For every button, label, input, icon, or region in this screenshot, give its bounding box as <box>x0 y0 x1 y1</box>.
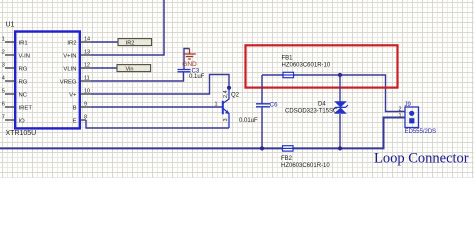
wire C6 top <box>261 75 263 104</box>
svg-text:2: 2 <box>398 107 401 113</box>
svg-text:CDSOD323-T15SC: CDSOD323-T15SC <box>285 108 338 114</box>
svg-text:12: 12 <box>84 63 90 69</box>
svg-text:9: 9 <box>84 102 87 108</box>
svg-text:11: 11 <box>84 76 90 82</box>
svg-text:13: 13 <box>84 50 90 56</box>
svg-text:1: 1 <box>215 102 218 108</box>
wire D4 top <box>339 75 341 102</box>
svg-text:2,4: 2,4 <box>223 90 229 98</box>
capacitor C3 plates <box>178 70 191 72</box>
U1 pin 7 stub <box>5 119 15 121</box>
svg-text:0.01uF: 0.01uF <box>239 118 258 124</box>
svg-text:E: E <box>73 118 77 124</box>
svg-text:2: 2 <box>2 50 5 56</box>
wire pin9 to Q2 base <box>91 106 223 108</box>
svg-text:GND: GND <box>182 61 197 68</box>
junction FB1/D4 <box>338 73 342 77</box>
ferrite bead FB1 <box>282 72 296 77</box>
U1 pin 11 stub <box>80 80 91 82</box>
U1 pin 2 stub <box>5 54 15 56</box>
svg-text:VREG: VREG <box>60 79 77 85</box>
svg-text:HZ0603C601R-10: HZ0603C601R-10 <box>281 163 330 169</box>
svg-text:IR2: IR2 <box>126 40 135 46</box>
svg-text:XTR105U: XTR105U <box>6 130 37 137</box>
wire pin10 V+ to Q2 collector <box>91 75 229 95</box>
svg-text:NC: NC <box>19 92 28 98</box>
svg-text:V+: V+ <box>69 92 77 98</box>
diode D4 TVS <box>333 101 348 114</box>
U1 pin 12 stub <box>80 67 91 69</box>
U1 pin 8 stub <box>80 119 86 121</box>
svg-text:IR1: IR1 <box>19 40 28 46</box>
svg-text:IR2: IR2 <box>67 40 76 46</box>
svg-text:D4: D4 <box>318 102 326 108</box>
U1 pin 13 stub <box>80 54 91 56</box>
svg-text:1: 1 <box>398 113 401 119</box>
U1 pin 14 stub <box>80 41 91 43</box>
svg-text:RG: RG <box>19 79 28 85</box>
U1 pin 6 stub <box>5 106 15 108</box>
svg-text:FB1: FB1 <box>282 56 294 62</box>
op-amp U1 XTR105U body <box>15 32 80 129</box>
port Vin <box>117 65 151 72</box>
junction at Q2 collector <box>227 86 231 90</box>
red highlight rectangle <box>246 45 398 87</box>
wire pin12 to Vin port <box>91 67 117 69</box>
svg-text:6: 6 <box>2 102 5 108</box>
port IR2 <box>118 39 152 46</box>
transistor Q2 <box>223 88 230 128</box>
svg-text:3: 3 <box>223 118 229 121</box>
svg-text:Q2: Q2 <box>231 93 240 99</box>
svg-text:Vin: Vin <box>126 66 134 72</box>
svg-text:3: 3 <box>2 63 5 69</box>
capacitor C6 plates <box>256 104 270 107</box>
wire pin8 E to Q2 emitter <box>86 120 229 128</box>
svg-text:VLIN: VLIN <box>63 66 76 72</box>
sheet background <box>0 0 474 178</box>
J9 pin 2 mark <box>409 111 414 116</box>
wire bottom loop bus <box>0 118 405 149</box>
U1 pin 10 stub <box>80 93 91 95</box>
svg-text:5: 5 <box>2 89 5 95</box>
junction C6/bus <box>260 146 264 150</box>
junction D4/bus <box>338 146 342 150</box>
svg-text:10: 10 <box>84 89 90 95</box>
wire pin13 up to sheet top <box>91 0 164 55</box>
wire pin14 to IR2 port <box>91 41 118 43</box>
svg-text:8: 8 <box>84 115 87 121</box>
U1 pin 3 stub <box>5 67 15 69</box>
svg-text:U1: U1 <box>6 22 15 29</box>
svg-text:Loop Connector: Loop Connector <box>374 151 469 167</box>
svg-text:1: 1 <box>2 37 5 43</box>
svg-text:IO: IO <box>19 118 26 124</box>
svg-text:V-IN: V-IN <box>19 53 30 59</box>
svg-text:RG: RG <box>19 66 28 72</box>
svg-text:0.1uF: 0.1uF <box>189 74 205 80</box>
svg-text:IRET: IRET <box>19 105 33 111</box>
svg-text:V+IN: V+IN <box>63 53 76 59</box>
U1 pin 4 stub <box>5 80 15 82</box>
svg-text:FB2: FB2 <box>281 156 293 162</box>
svg-text:J9: J9 <box>405 102 412 108</box>
wire FB1 bus <box>262 75 405 112</box>
U1 pin 1 stub <box>5 41 15 43</box>
svg-text:4: 4 <box>2 76 5 82</box>
wire pin11 to C3 <box>91 72 184 81</box>
J9 pin 1 mark <box>409 118 414 123</box>
svg-text:ED555/2DS: ED555/2DS <box>405 129 437 135</box>
svg-text:14: 14 <box>84 37 90 43</box>
svg-text:HZ0603C601R-10: HZ0603C601R-10 <box>282 63 331 69</box>
wire D4 bottom <box>339 114 341 148</box>
U1 pin 5 stub <box>5 93 15 95</box>
U1 pin 9 stub <box>80 106 91 108</box>
svg-text:7: 7 <box>2 115 5 121</box>
wire C3 top to GND <box>184 49 190 70</box>
connector J9 body <box>405 107 419 128</box>
svg-text:C6: C6 <box>270 103 278 109</box>
wire C6 bottom <box>261 107 263 148</box>
ferrite bead FB2 <box>281 146 295 151</box>
svg-text:B: B <box>73 105 77 111</box>
ground GND power port <box>183 49 196 60</box>
